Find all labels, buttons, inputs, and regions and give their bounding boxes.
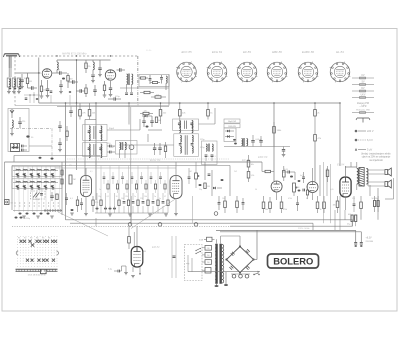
svg-text:~ MHz: ~ MHz xyxy=(359,105,367,108)
band switch wafer verticals xyxy=(15,166,60,212)
wire x85 drop xyxy=(84,120,86,176)
wire EM84 leads xyxy=(122,226,142,277)
tube V3 EF89 xyxy=(170,176,182,199)
resistor R3 xyxy=(67,73,73,88)
wire transformer to rectifier xyxy=(221,236,240,247)
capacitor C8 xyxy=(109,81,113,97)
wire antenna feed xyxy=(9,68,11,77)
svg-text:0,1: 0,1 xyxy=(70,198,73,200)
legend antenna symbol xyxy=(356,118,370,123)
resistor R2 grid leak xyxy=(40,80,46,98)
svg-text:4n7: 4n7 xyxy=(300,175,303,177)
svg-text:100: 100 xyxy=(222,198,225,200)
resistor R4 xyxy=(85,60,91,73)
resistor R9 lower xyxy=(151,94,166,98)
svg-text:EM 84: EM 84 xyxy=(152,245,160,249)
pointer line to EM84 xyxy=(131,199,176,229)
pilot lamp row labels xyxy=(18,238,50,240)
trimmer caps row 1 xyxy=(17,176,54,178)
svg-text:22k: 22k xyxy=(88,66,91,68)
capacitor C5b xyxy=(59,80,63,94)
capacitor C2 xyxy=(28,86,38,89)
wire mid rail y165.5 xyxy=(12,165,230,167)
svg-text:6,3 V: 6,3 V xyxy=(367,139,373,142)
dashed dial lamp line xyxy=(12,225,230,227)
svg-text:L4: L4 xyxy=(36,169,38,171)
wire FM box bottom feed xyxy=(120,75,169,106)
capacitor C26b xyxy=(302,172,305,183)
wire x130.8 long vertical xyxy=(130,107,132,224)
svg-text:ECC 85: ECC 85 xyxy=(181,50,192,54)
svg-text:10k: 10k xyxy=(265,209,268,211)
resistor R21 10k xyxy=(247,155,254,171)
wire AM ant to mixer xyxy=(29,128,52,160)
resistor R24 xyxy=(262,196,265,213)
svg-text:14-490: 14-490 xyxy=(38,189,45,191)
coil L3 oscillator xyxy=(91,60,95,83)
primary tap 110V xyxy=(202,260,212,265)
speaker LS2 xyxy=(385,182,388,187)
svg-text:220: 220 xyxy=(207,248,210,250)
transformer T4 boxed unit xyxy=(116,141,138,159)
svg-text:5n: 5n xyxy=(154,196,156,198)
svg-text:220/380: 220/380 xyxy=(366,241,374,243)
svg-text:1M: 1M xyxy=(297,187,300,189)
resistor R30 xyxy=(360,196,363,220)
IF transformer T6 xyxy=(174,134,199,157)
capacitor C25 coupling xyxy=(282,169,295,178)
resistor R5 xyxy=(103,81,107,97)
wire screen feed x65.5 xyxy=(65,103,67,220)
wire x340 drop to output xyxy=(339,103,341,166)
band switch coil row upper xyxy=(13,169,58,174)
capacitor C12 xyxy=(18,117,25,128)
labels audio section xyxy=(265,209,322,211)
scatter value labels xyxy=(69,165,355,200)
capacitor C11 470pF xyxy=(108,96,121,100)
tube socket diagram EABC 80 xyxy=(298,50,319,82)
svg-text:C₅ D₂: C₅ D₂ xyxy=(146,50,152,52)
svg-text:12k: 12k xyxy=(156,94,159,96)
wire rectifier output xyxy=(240,230,257,274)
capacitor C6c xyxy=(93,85,96,96)
resistor R22 1.2k xyxy=(247,172,254,183)
band switch coil row lower xyxy=(13,181,58,186)
output transformer T8 xyxy=(357,162,368,190)
legend voltage 220V xyxy=(355,130,374,134)
row value labels xyxy=(98,196,166,198)
wire bottom connect EM84 xyxy=(95,218,97,226)
tube socket diagram ECH 81 xyxy=(207,50,228,82)
capacitor C20 xyxy=(153,143,156,155)
capacitor C22b xyxy=(282,147,286,157)
capacitor C19 blob xyxy=(146,126,149,128)
dial cord X marks row 1 xyxy=(20,240,58,243)
wire x96 drop xyxy=(95,103,97,200)
capacitor C29 0.1uF xyxy=(108,266,122,272)
fuse F1 xyxy=(199,237,215,241)
resistor bank left xyxy=(50,170,76,201)
discriminator shield box xyxy=(202,141,218,165)
resistor R25 xyxy=(269,197,272,213)
svg-text:EF 89: EF 89 xyxy=(242,158,250,162)
wire T4 link xyxy=(123,144,174,146)
svg-text:47k: 47k xyxy=(69,165,72,167)
resistor R23b xyxy=(262,170,274,172)
capacitor C10 xyxy=(160,75,163,84)
dial cord X marks row 2 xyxy=(26,259,55,262)
svg-text:1n: 1n xyxy=(58,70,60,72)
svg-text:DV: DV xyxy=(361,88,365,90)
svg-text:120: 120 xyxy=(43,90,46,92)
svg-text:BOLERO: BOLERO xyxy=(273,256,313,267)
svg-text:ECH 81: ECH 81 xyxy=(212,50,223,54)
svg-text:50: 50 xyxy=(255,189,257,191)
svg-text:220: 220 xyxy=(22,121,25,123)
nameplate BOLERO xyxy=(268,254,319,268)
svg-text:na vrijednosti: na vrijednosti xyxy=(369,159,383,162)
capacitor C26 xyxy=(303,189,305,192)
diode D2a xyxy=(225,130,234,133)
wire speaker connections xyxy=(368,170,394,220)
wire mid rail y162 xyxy=(5,161,263,163)
resistor R8 lower xyxy=(140,91,154,93)
resistor R27 xyxy=(316,196,319,213)
power transformer T9 windings xyxy=(215,236,224,284)
AM antenna input box xyxy=(8,109,29,152)
legend symbol UKV band xyxy=(352,95,374,99)
svg-text:10k: 10k xyxy=(144,196,147,198)
label box 50u xyxy=(224,119,240,123)
capacitor C18 xyxy=(150,116,153,127)
wires IF section links xyxy=(85,103,140,130)
svg-text:2k2: 2k2 xyxy=(234,171,237,173)
wire plate to transformer xyxy=(345,162,357,167)
diode D1 xyxy=(142,115,152,118)
svg-text:1,2k: 1,2k xyxy=(251,175,255,177)
capacitor C16b xyxy=(69,107,72,118)
legend symbol KV band xyxy=(352,75,374,79)
resistor R23 xyxy=(283,166,286,181)
capacitor C31 xyxy=(58,121,61,132)
primary tap 220V xyxy=(202,246,212,251)
svg-text:1M: 1M xyxy=(29,81,32,83)
capacitor C27c xyxy=(353,196,356,212)
pilot lamp 1 xyxy=(128,223,132,227)
svg-text:EBF 89: EBF 89 xyxy=(258,155,268,159)
capacitor C22 xyxy=(251,135,262,147)
resistor R32 EM84 grid xyxy=(128,226,131,249)
svg-text:1k: 1k xyxy=(320,209,322,211)
IF transformer T2 xyxy=(83,125,107,141)
pilot lamp 2 xyxy=(158,223,162,227)
switch contact row 1 xyxy=(14,202,58,206)
IF transformer T3 xyxy=(83,143,107,157)
junction dots dashed top xyxy=(56,55,111,56)
FM tuner dashed enclosure xyxy=(15,56,169,106)
tube V6 EL84 output xyxy=(340,177,351,197)
resistor R26 xyxy=(280,196,283,213)
tube socket diagram EL 84 xyxy=(330,50,351,82)
left block bottom components xyxy=(13,211,62,219)
coil L5 antenna xyxy=(10,120,14,136)
legend symbol frequency xyxy=(352,109,374,114)
resistor R10 27k xyxy=(79,103,87,120)
svg-text:SV: SV xyxy=(361,82,365,84)
capacitor C32 xyxy=(58,138,62,152)
resistor R28 xyxy=(323,196,326,213)
wire mains rail xyxy=(216,196,361,232)
blob on shelf 1 xyxy=(39,157,42,159)
legend text Zasjeg PM xyxy=(357,102,369,108)
antenna A1 dipole xyxy=(3,54,19,68)
svg-text:+6,3V: +6,3V xyxy=(366,238,373,240)
wire upper shelf y155.5 xyxy=(14,156,100,163)
capacitor bank left of V2 xyxy=(65,193,74,215)
svg-text:1M: 1M xyxy=(143,251,146,253)
transformer T1 ratio det xyxy=(125,74,133,95)
svg-text:110: 110 xyxy=(207,262,210,264)
svg-text:EBF 89: EBF 89 xyxy=(272,50,282,54)
wire audio links xyxy=(262,162,331,223)
trimmer C5 xyxy=(68,80,78,83)
svg-text:Frekvenc GW: Frekvenc GW xyxy=(356,109,370,112)
resistor R31 grid xyxy=(326,166,329,182)
svg-text:L3: L3 xyxy=(29,169,31,171)
resistor R12 2k2 xyxy=(159,103,167,120)
label EM84 values xyxy=(143,245,160,253)
svg-text:L7: L7 xyxy=(29,181,31,183)
pilot lamp 3 xyxy=(194,223,198,227)
wire x76.5 drop xyxy=(76,103,78,170)
wire HT supply bus xyxy=(39,102,340,104)
svg-text:10k: 10k xyxy=(121,198,124,200)
svg-text:L6: L6 xyxy=(22,181,24,183)
capacitor C21 xyxy=(158,143,161,155)
labels left block xyxy=(15,169,38,183)
capacitor C33 xyxy=(188,168,191,184)
antenna A2 rod xyxy=(10,109,14,118)
detector coil T7 xyxy=(242,138,248,147)
wire x192 drop xyxy=(192,196,194,223)
svg-text:13 21 28 35 42 49 56: 13 21 28 35 42 49 56 xyxy=(28,275,46,277)
svg-text:220V~50Hz: 220V~50Hz xyxy=(298,228,310,230)
resistor R7 xyxy=(151,81,161,83)
bridge rectifier D3 xyxy=(225,245,254,273)
capacitor C23 xyxy=(259,136,262,147)
volume pot P1 xyxy=(293,180,301,196)
dial cord diagram dot lattice xyxy=(17,236,57,267)
capacitor C9 xyxy=(149,75,152,84)
svg-text:6k8: 6k8 xyxy=(70,79,73,81)
IF transformer T5 xyxy=(173,119,199,130)
wire row bottoms xyxy=(95,212,168,214)
tube V5 EL84 driver xyxy=(307,182,318,193)
electrolytic pair 2x250 xyxy=(15,217,31,220)
primary tap 150V xyxy=(202,253,212,258)
components under V3 xyxy=(214,196,244,215)
svg-text:25μ: 25μ xyxy=(98,196,101,198)
svg-text:osig: osig xyxy=(186,263,189,265)
blob C34 xyxy=(199,184,202,186)
wire heater bus upper xyxy=(66,219,353,221)
svg-text:EF 89: EF 89 xyxy=(243,50,251,54)
legend symbol SV band xyxy=(352,82,374,86)
band switch row boxes xyxy=(12,167,62,189)
wire dashes AGC long xyxy=(65,158,230,160)
resistor R19 1M xyxy=(273,122,282,147)
svg-text:Uredaj· izmjenjivanjem elektr.: Uredaj· izmjenjivanjem elektr. xyxy=(361,153,391,156)
capacitor C6 xyxy=(98,60,102,77)
phono input connector xyxy=(5,200,14,205)
pointer to caption xyxy=(58,212,108,236)
choke L2 xyxy=(57,60,58,73)
svg-text:470μ: 470μ xyxy=(115,96,120,98)
wire detector bus xyxy=(224,103,290,181)
capacitor C1 xyxy=(20,74,26,89)
coil L1 input filter xyxy=(7,78,21,94)
FM box filler wires xyxy=(24,91,71,106)
dial cord X center xyxy=(31,243,34,246)
resistor R29 cathode xyxy=(333,196,339,213)
resistor R12b 12k xyxy=(140,111,153,115)
wire pair to primary xyxy=(172,236,176,278)
terminal strip xyxy=(231,273,260,278)
capacitor C4 coupling xyxy=(52,70,68,80)
resistor R27b xyxy=(306,186,308,199)
svg-text:220: 220 xyxy=(140,198,143,200)
svg-text:EL 84: EL 84 xyxy=(336,50,344,54)
tube V1b triode ECC85 xyxy=(105,70,115,80)
svg-text:AM-FM 87,5-100 MHz: AM-FM 87,5-100 MHz xyxy=(62,53,87,56)
components right of V3 xyxy=(204,162,230,196)
resistor R18 xyxy=(164,142,166,158)
legend signal 5uV xyxy=(355,148,373,152)
wire x131 drop to EM84 lamp xyxy=(131,196,133,224)
dash-dot AGC line xyxy=(10,127,52,129)
svg-text:L1: L1 xyxy=(15,169,17,171)
svg-text:cijevi na 20% se odstupanje: cijevi na 20% se odstupanje xyxy=(362,156,391,159)
label box 1M xyxy=(224,124,240,128)
svg-text:30+30pF: 30+30pF xyxy=(33,199,41,201)
svg-text:5 μV: 5 μV xyxy=(367,149,373,152)
svg-text:ECH 81: ECH 81 xyxy=(150,158,161,162)
enclosure FM IF stage xyxy=(139,75,169,87)
dial cord side hooks xyxy=(16,251,58,255)
components around V2 xyxy=(70,196,98,212)
ferrite antenna L6 xyxy=(11,144,20,152)
detector unit box xyxy=(224,128,236,142)
wire V2 leads xyxy=(84,168,88,216)
wire heater bus right segment xyxy=(230,220,353,231)
legend voltage 6.3V xyxy=(355,139,373,143)
resistor R14 1k xyxy=(207,103,214,120)
resistor R33 xyxy=(66,126,68,141)
speaker LS1 xyxy=(385,170,388,175)
resistor R17 xyxy=(155,117,161,123)
svg-text:1M/0,5W: 1M/0,5W xyxy=(228,126,236,128)
svg-text:50: 50 xyxy=(116,196,118,198)
svg-text:220: 220 xyxy=(125,196,128,198)
resistor R15 2k xyxy=(314,103,321,120)
wire verticals mid xyxy=(101,166,168,194)
label T6 values xyxy=(200,139,205,149)
capacitor C7 IF out xyxy=(117,68,126,71)
legend symbol DV band xyxy=(352,88,374,92)
svg-text:5n: 5n xyxy=(159,198,161,200)
left block dark bodies row2 xyxy=(16,185,54,187)
svg-text:8μ: 8μ xyxy=(306,198,308,200)
tube V1a triode ECC85 xyxy=(42,69,52,79)
dial diagram baseline xyxy=(16,269,58,273)
wire V1 plate line xyxy=(57,59,111,103)
capacitor C15 250p xyxy=(107,143,115,147)
note text block xyxy=(361,153,391,162)
svg-text:10k: 10k xyxy=(251,164,254,166)
svg-text:47: 47 xyxy=(164,196,166,198)
tube socket diagram EBF 89 xyxy=(267,50,288,82)
tube V2 ECH81 xyxy=(81,176,92,197)
svg-text:25μ: 25μ xyxy=(199,189,202,191)
tuning gang C24 xyxy=(31,189,46,199)
svg-text:1n: 1n xyxy=(134,196,136,198)
blob on shelf 2 xyxy=(51,158,54,160)
capacitor C22c blob xyxy=(233,139,236,141)
wire V4 V5 leads xyxy=(277,168,313,200)
svg-text:UKV: UKV xyxy=(361,95,366,97)
wire V3 leads xyxy=(174,162,178,216)
resistor R1 xyxy=(26,73,32,88)
tube socket diagram EF 89 xyxy=(237,50,258,82)
row caps upper xyxy=(103,172,162,184)
svg-text:0,1: 0,1 xyxy=(107,196,110,198)
svg-text:KV: KV xyxy=(361,75,365,77)
svg-text:330: 330 xyxy=(352,198,355,200)
capacitor C14 trimmer xyxy=(22,145,28,152)
ground row xyxy=(108,214,168,216)
tube socket diagram ECC 85 xyxy=(176,50,197,82)
svg-text:L5: L5 xyxy=(15,181,17,183)
svg-text:0,1: 0,1 xyxy=(90,171,93,173)
resistor R20 47k xyxy=(314,120,322,182)
pot P2 tone xyxy=(195,162,200,188)
capacitor C13 dark xyxy=(26,135,34,139)
wire V6 leads xyxy=(345,166,347,210)
svg-text:50+50μ: 50+50μ xyxy=(372,198,379,200)
left block dark bodies row1 xyxy=(16,173,54,175)
wire bus lower xyxy=(57,106,169,108)
transformer ground feet xyxy=(215,272,229,287)
capacitor C3 xyxy=(46,80,50,98)
svg-text:470k: 470k xyxy=(283,209,287,211)
component row below converter xyxy=(96,193,170,213)
svg-text:1n: 1n xyxy=(99,189,101,191)
svg-text:50μ/0,5W: 50μ/0,5W xyxy=(228,121,236,123)
tube V4 EABC80 xyxy=(271,181,282,192)
switch contacts row 2 xyxy=(44,210,61,211)
resistor R6 xyxy=(139,77,148,79)
svg-text:2M: 2M xyxy=(73,179,76,181)
resistor R4b xyxy=(85,84,87,97)
capacitor C16 xyxy=(107,151,115,154)
diode D2b xyxy=(225,135,234,138)
svg-text:150: 150 xyxy=(207,255,210,257)
trimmer caps row 2 xyxy=(17,188,54,190)
wire bus verticals right xyxy=(354,230,374,247)
row resistors upper xyxy=(107,180,166,193)
wire heater bus mid xyxy=(70,222,313,224)
tube V7 EM84 magic eye xyxy=(131,247,143,268)
